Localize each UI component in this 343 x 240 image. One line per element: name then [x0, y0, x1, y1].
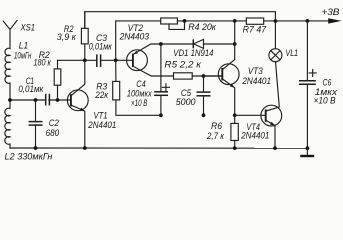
capacitor C5 5000 — [176, 76, 211, 115]
wire VD1 line — [161, 43, 235, 45]
wire rail to R4 — [116, 21, 161, 60]
capacitor C6 1uF — [299, 21, 337, 148]
svg-text:VL1: VL1 — [286, 48, 299, 58]
node rail/VD1 — [233, 19, 237, 23]
capacitor C4 100uF — [127, 79, 170, 108]
svg-text:R6: R6 — [211, 121, 223, 131]
node C2 top — [34, 98, 38, 102]
svg-text:2,7 к: 2,7 к — [206, 131, 224, 141]
antenna XS1 — [3, 20, 35, 48]
node C6 top — [306, 19, 310, 23]
svg-text:180 к: 180 к — [33, 58, 51, 68]
node VT3 emitter / R6 / VT4 base — [233, 113, 237, 117]
svg-text:5000: 5000 — [176, 97, 197, 107]
svg-text:22к: 22к — [94, 90, 108, 100]
lamp VL1 — [269, 21, 298, 62]
node C5 bottom — [202, 113, 206, 117]
transistor VT1 2N4401 — [67, 60, 116, 148]
svg-text:2N4401: 2N4401 — [87, 120, 116, 130]
node VT1 emitter — [83, 146, 87, 150]
svg-text:2N4403: 2N4403 — [119, 31, 150, 41]
inductor L1 — [5, 40, 31, 83]
svg-text:VD1 1N914: VD1 1N914 — [173, 48, 213, 58]
+3V arrow — [321, 7, 341, 24]
resistor R3 22k — [94, 60, 161, 115]
svg-text:L2 330мкГн: L2 330мкГн — [5, 151, 53, 161]
resistor R2 180k — [33, 50, 60, 100]
transistor VT3 2N4401 — [204, 21, 272, 115]
wire C4 column — [160, 44, 162, 115]
node ground junction — [306, 146, 310, 150]
wire top bus — [85, 12, 276, 29]
wire — [9, 83, 11, 100]
svg-text:2N4401: 2N4401 — [242, 76, 271, 86]
svg-text:XS1: XS1 — [20, 23, 35, 33]
svg-text:0,01мк: 0,01мк — [18, 84, 43, 94]
node VD1/VT3 collector — [233, 42, 237, 46]
svg-text:C2: C2 — [49, 118, 59, 128]
resistor R4 20k — [161, 18, 235, 32]
node L1/L2/C1 — [8, 98, 12, 102]
transistor VT4 2N4401 — [240, 62, 281, 148]
node VT4 emitter — [273, 146, 277, 150]
svg-text:L1: L1 — [19, 40, 29, 50]
svg-text:R5 2,2 к: R5 2,2 к — [164, 59, 201, 69]
wire bottom bus — [10, 147, 307, 149]
svg-text:R4 20к: R4 20к — [188, 22, 216, 32]
node C4 bottom — [159, 113, 163, 117]
svg-text:2N4401: 2N4401 — [240, 130, 269, 140]
node VT2 base — [114, 58, 118, 62]
node C2 bottom — [34, 146, 38, 150]
diode VD1 1N914 — [173, 39, 213, 58]
svg-text:3,9 к: 3,9 к — [57, 32, 77, 42]
svg-text:100мкх: 100мкх — [127, 88, 152, 98]
wire VT1 base line — [10, 99, 71, 101]
resistor R7 47 — [235, 18, 276, 35]
inductor L2 — [5, 100, 53, 161]
svg-text:0,01мк: 0,01мк — [89, 41, 113, 51]
capacitor C3 — [89, 33, 113, 67]
resistor R2 3.9k — [57, 12, 88, 61]
capacitor C2 — [29, 100, 60, 148]
svg-text:VT1: VT1 — [94, 110, 108, 120]
svg-text:680: 680 — [46, 128, 60, 138]
node VT2 emitter — [159, 42, 163, 46]
capacitor C1 — [18, 76, 49, 105]
resistor R5 2.2k — [164, 59, 222, 79]
svg-text:×10 В: ×10 В — [313, 96, 335, 106]
svg-text:VT3: VT3 — [248, 66, 264, 76]
svg-text:×10 В: ×10 В — [131, 98, 147, 108]
ground — [300, 148, 314, 156]
svg-text:+3В: +3В — [321, 7, 339, 17]
node R6 bottom — [233, 146, 237, 150]
wire +3V rail — [275, 20, 328, 22]
resistor R6 2.7k — [206, 115, 238, 148]
node VT1 collector / R2 / C3 — [83, 58, 87, 62]
node C5 top — [202, 74, 206, 78]
transistor VT2 2N4403 — [119, 23, 174, 76]
wire bias line y60 — [58, 59, 133, 61]
node R2 180k bottom — [56, 98, 60, 102]
svg-text:R7 47: R7 47 — [243, 25, 267, 35]
node top bus / VL1 — [274, 19, 278, 23]
svg-text:10мГн: 10мГн — [14, 51, 32, 61]
wire VT4 base line — [235, 114, 266, 116]
